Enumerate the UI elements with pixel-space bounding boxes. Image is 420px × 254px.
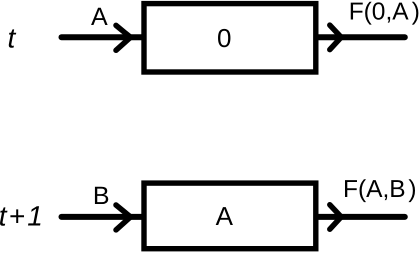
arrowhead: top input arrow bbox=[116, 25, 131, 50]
svg-text:A: A bbox=[91, 3, 108, 31]
svg-text:A: A bbox=[216, 201, 234, 231]
svg-text:B: B bbox=[93, 182, 110, 210]
wire: bottom output line bbox=[318, 214, 405, 220]
svg-text:t+1: t+1 bbox=[0, 201, 45, 232]
svg-text:F(0,A): F(0,A) bbox=[349, 0, 420, 25]
wire: bottom input line bbox=[62, 214, 144, 220]
wire: top output line bbox=[318, 34, 405, 40]
register box top bbox=[144, 4, 316, 72]
register box bottom bbox=[144, 183, 316, 249]
svg-text:F(A,B): F(A,B) bbox=[343, 176, 416, 203]
svg-text:0: 0 bbox=[217, 23, 231, 53]
arrowhead: bottom input arrow bbox=[116, 205, 131, 230]
svg-text:t: t bbox=[8, 23, 17, 54]
wire: top input line bbox=[62, 34, 144, 40]
arrowhead: top output arrow bbox=[330, 25, 341, 49]
arrowhead: bottom output arrow bbox=[330, 205, 341, 230]
